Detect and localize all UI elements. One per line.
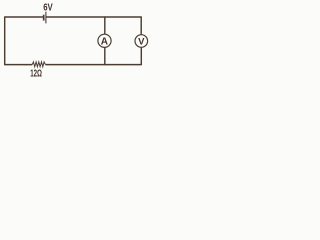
svg-text:12Ω: 12Ω [30,68,42,80]
svg-text:6V: 6V [43,1,53,13]
svg-text:A: A [101,36,108,47]
svg-text:V: V [138,36,145,47]
